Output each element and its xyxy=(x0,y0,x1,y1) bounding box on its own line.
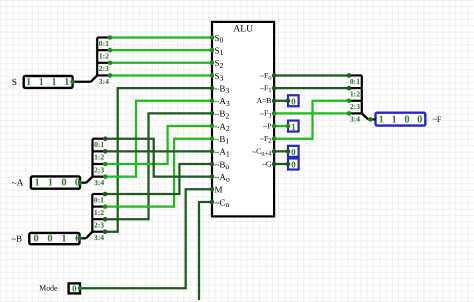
splitter SP3 (~B) leg 2:3 xyxy=(92,218,105,220)
output pin ~P box xyxy=(288,121,299,132)
wire net ~A0 xyxy=(105,139,212,177)
svg-text:0:1: 0:1 xyxy=(350,77,360,86)
svg-text:1: 1 xyxy=(48,178,53,189)
junction ALU pin ~G xyxy=(272,162,277,167)
wire net ~Cn+4 xyxy=(274,150,288,152)
svg-text:S0: S0 xyxy=(215,33,224,45)
splitter SP2 (~A) stem diagonal xyxy=(86,177,92,183)
junction SP1 leg 1 end xyxy=(108,48,113,53)
splitter SP4 (~F) leg 1:2 xyxy=(349,87,362,89)
junction ALU pin ~A3 xyxy=(210,98,215,103)
wire net S1 xyxy=(110,49,212,51)
junction ALU pin ~B2 xyxy=(210,111,215,116)
splitter SP3 (~B) leg 0:1 xyxy=(92,193,105,195)
svg-text:0: 0 xyxy=(291,160,296,170)
svg-text:1: 1 xyxy=(379,115,384,126)
splitter SP4 (~F) leg 0:1 xyxy=(349,74,362,76)
svg-text:1: 1 xyxy=(26,77,31,88)
junction ALU pin ~A1 xyxy=(210,149,215,154)
svg-text:S1: S1 xyxy=(215,45,224,57)
svg-text:1:2: 1:2 xyxy=(350,89,360,98)
wire net ~G xyxy=(274,163,288,165)
svg-text:2:3: 2:3 xyxy=(94,221,104,230)
wire net ~A3 xyxy=(105,101,212,177)
svg-text:0: 0 xyxy=(417,115,422,126)
svg-text:~B1: ~B1 xyxy=(215,134,230,146)
svg-text:1: 1 xyxy=(64,77,69,88)
wire net ~P xyxy=(274,125,288,127)
splitter SP1 (S) stem diagonal xyxy=(91,75,97,81)
svg-text:~A1: ~A1 xyxy=(215,147,230,159)
splitter SP2 (~A) spine xyxy=(91,139,93,177)
wire net ~F3 xyxy=(274,112,349,114)
svg-text:0: 0 xyxy=(72,283,77,293)
splitter SP1 (S) leg 2:3 xyxy=(97,62,110,64)
junction SP3 leg 1 end xyxy=(103,204,108,209)
junction ALU pin ~Cn xyxy=(210,200,215,205)
junction SP3 leg 0 end xyxy=(103,192,108,197)
junction SP3 leg 3 end xyxy=(103,229,108,234)
splitter SP1 (S) leg 0:1 xyxy=(97,36,110,38)
junction ~G port xyxy=(286,162,291,167)
svg-text:0: 0 xyxy=(61,178,66,189)
svg-text:1: 1 xyxy=(34,178,39,189)
svg-text:~F: ~F xyxy=(432,115,441,124)
svg-text:0:1: 0:1 xyxy=(99,39,109,48)
wire ~F bus xyxy=(368,118,375,120)
junction ALU pin ~B1 xyxy=(210,136,215,141)
splitter SP3 (~B) leg 3:4 xyxy=(92,231,105,233)
junction SP1 leg 0 end xyxy=(108,35,113,40)
junction S pin port xyxy=(70,80,75,85)
wire ~A bus xyxy=(80,182,86,184)
junction SP4 leg 1 end xyxy=(347,86,352,91)
svg-text:M: M xyxy=(215,185,223,195)
wire net ~B0 xyxy=(105,164,212,194)
wire net ~F2 xyxy=(274,101,349,139)
output pin ~G box xyxy=(288,159,299,170)
junction ALU pin S3 xyxy=(210,73,215,78)
svg-text:~B: ~B xyxy=(11,233,22,244)
junction ALU pin ~B0 xyxy=(210,162,215,167)
splitter SP4 (~F) stem diagonal xyxy=(362,113,368,119)
splitter SP2 (~A) leg 2:3 xyxy=(93,163,106,165)
input pin S box xyxy=(24,76,73,88)
junction ALU pin ~F3 xyxy=(272,111,277,116)
svg-text:S3: S3 xyxy=(215,71,224,83)
svg-text:ALU: ALU xyxy=(233,23,253,34)
svg-text:~Ao: ~Ao xyxy=(215,172,230,184)
svg-text:3:4: 3:4 xyxy=(350,115,360,124)
junction ALU pin ~A2 xyxy=(210,124,215,129)
wire net ~B3 xyxy=(105,88,212,232)
junction ALU pin ~P xyxy=(272,124,277,129)
svg-text:~A: ~A xyxy=(12,178,24,189)
svg-text:~B2: ~B2 xyxy=(215,109,230,121)
svg-text:~G: ~G xyxy=(262,159,272,169)
splitter SP1 (S) spine xyxy=(96,38,98,76)
svg-text:0:1: 0:1 xyxy=(94,195,104,204)
splitter SP3 (~B) leg 1:2 xyxy=(92,206,105,208)
svg-text:A=B: A=B xyxy=(257,96,272,105)
output pin ~Cn+4 box xyxy=(288,146,299,157)
svg-text:0: 0 xyxy=(47,234,52,245)
svg-text:Mode: Mode xyxy=(39,283,58,292)
wire net A=B xyxy=(274,100,288,102)
wire net ~A1 xyxy=(105,150,212,152)
wire net ~Cn xyxy=(199,202,212,300)
junction Mode pin port xyxy=(78,286,83,291)
svg-text:3:4: 3:4 xyxy=(94,178,104,187)
svg-text:~Bo: ~Bo xyxy=(215,159,230,171)
wire S bus xyxy=(73,81,91,83)
junction SP1 leg 3 end xyxy=(108,73,113,78)
wire net ~F1 xyxy=(274,87,349,89)
wire net ~F0 xyxy=(274,74,349,76)
junction ALU pin M xyxy=(210,187,215,192)
junction ALU pin S2 xyxy=(210,61,215,66)
svg-text:1: 1 xyxy=(391,115,396,126)
junction SP4 leg 2 end xyxy=(347,98,352,103)
svg-text:3:4: 3:4 xyxy=(94,233,104,242)
splitter SP4 (~F) spine xyxy=(361,75,363,113)
junction SP4 leg 3 end xyxy=(347,111,352,116)
svg-text:S2: S2 xyxy=(215,58,224,70)
wire net ~B1 xyxy=(105,139,212,207)
svg-text:2:3: 2:3 xyxy=(350,102,360,111)
svg-text:~B3: ~B3 xyxy=(215,83,230,95)
splitter SP3 (~B) stem diagonal xyxy=(86,232,92,239)
junction SP2 leg 1 end xyxy=(103,149,108,154)
splitter SP2 (~A) leg 0:1 xyxy=(93,138,106,140)
junction ALU pin ~F1 xyxy=(272,86,277,91)
wire net ~B2 xyxy=(105,113,212,219)
svg-text:1:2: 1:2 xyxy=(99,52,109,61)
svg-text:~A2: ~A2 xyxy=(215,121,230,133)
svg-text:1: 1 xyxy=(61,234,66,245)
wire ~B bus xyxy=(80,237,87,239)
junction A=B port xyxy=(286,98,291,103)
junction ~F pin port xyxy=(368,117,373,122)
junction ALU pin ~B3 xyxy=(210,86,215,91)
splitter SP1 (S) leg 1:2 xyxy=(97,49,110,51)
splitter SP2 (~A) leg 3:4 xyxy=(93,176,106,178)
junction ~P port xyxy=(286,124,291,129)
svg-text:2:3: 2:3 xyxy=(99,64,109,73)
junction ALU pin ~F2 xyxy=(272,136,277,141)
svg-text:1: 1 xyxy=(291,122,296,132)
svg-text:1:2: 1:2 xyxy=(94,208,104,217)
input pin ~A box xyxy=(31,176,80,188)
junction ~Cn+4 port xyxy=(286,149,291,154)
splitter SP1 (S) leg 3:4 xyxy=(97,74,110,76)
junction SP2 leg 3 end xyxy=(103,174,108,179)
svg-text:0: 0 xyxy=(404,115,409,126)
junction SP2 leg 0 end xyxy=(103,136,108,141)
junction ALU pin A=B xyxy=(272,98,277,103)
splitter SP2 (~A) leg 1:2 xyxy=(93,150,106,152)
splitter SP4 (~F) leg 2:3 xyxy=(349,100,362,102)
junction ~A pin port xyxy=(78,180,83,185)
svg-text:~A3: ~A3 xyxy=(215,96,230,108)
svg-text:1:2: 1:2 xyxy=(94,153,104,162)
junction ALU pin S1 xyxy=(210,48,215,53)
output pin ~F box xyxy=(376,113,426,126)
svg-text:3:4: 3:4 xyxy=(99,77,109,86)
op-amp U1: ALU body xyxy=(212,22,274,217)
input pin Mode box xyxy=(69,283,80,293)
junction SP3 leg 2 end xyxy=(103,217,108,222)
junction ~B pin port xyxy=(77,236,82,241)
junction ALU pin ~Cn+4 xyxy=(272,149,277,154)
junction SP2 leg 2 end xyxy=(103,162,108,167)
svg-text:~P: ~P xyxy=(263,121,271,131)
wire net M (Mode) xyxy=(80,189,212,288)
wire net S3 xyxy=(110,74,212,76)
svg-text:1: 1 xyxy=(39,77,44,88)
junction ALU pin ~A0 xyxy=(210,174,215,179)
input pin ~B box xyxy=(29,233,79,244)
wire net ~A2 xyxy=(105,126,212,164)
svg-text:~Cn: ~Cn xyxy=(215,197,230,209)
svg-text:2:3: 2:3 xyxy=(94,165,104,174)
junction SP4 leg 0 end xyxy=(347,73,352,78)
junction SP1 leg 2 end xyxy=(108,61,113,66)
svg-text:0:1: 0:1 xyxy=(94,140,104,149)
splitter SP4 (~F) leg 3:4 xyxy=(349,112,362,114)
output pin A=B box xyxy=(288,95,299,106)
wire net S0 xyxy=(110,36,212,38)
wire net S2 xyxy=(110,62,212,64)
svg-text:0: 0 xyxy=(291,147,296,157)
svg-text:0: 0 xyxy=(33,234,38,245)
splitter SP3 (~B) spine xyxy=(91,194,93,232)
junction ALU pin ~F0 xyxy=(272,73,277,78)
svg-text:1: 1 xyxy=(51,77,56,88)
svg-text:S: S xyxy=(12,78,17,88)
svg-text:0: 0 xyxy=(291,96,296,106)
junction ALU pin S0 xyxy=(210,35,215,40)
